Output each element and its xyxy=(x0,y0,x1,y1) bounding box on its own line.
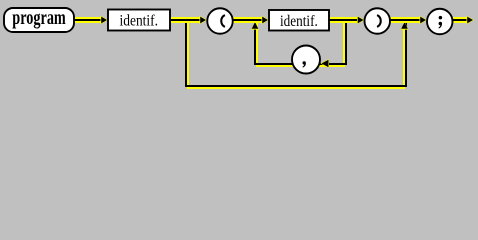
terminal circle: ) xyxy=(365,8,391,34)
wire: inner comma loop (black trace) xyxy=(255,22,346,64)
nonterminal box: identif (first) xyxy=(108,10,170,31)
terminal circle: ( xyxy=(207,8,233,34)
arrowhead: into ) circle xyxy=(357,16,365,24)
wire: main line ( to identif2 xyxy=(233,17,265,23)
terminal box: program (stadium) xyxy=(4,8,74,32)
label: ) xyxy=(377,15,381,27)
arrowhead: diagram exit xyxy=(467,16,475,24)
arrowhead: into identif2 box xyxy=(262,16,270,24)
wire: main line ) to ; xyxy=(390,17,423,23)
terminal circle: ; xyxy=(427,9,453,35)
wire: main line program to identif xyxy=(75,17,104,23)
wire: main line identif to ( xyxy=(171,17,203,23)
terminal circle: , (comma) xyxy=(292,46,320,74)
label: ; xyxy=(438,16,442,29)
nonterminal box: identif (second) xyxy=(269,10,329,31)
label: , xyxy=(302,61,306,67)
arrowhead: up from outer bypass into main line xyxy=(401,21,409,29)
wire: outer bypass loop (yellow inner trace) xyxy=(188,22,404,88)
arrowhead: left into comma circle xyxy=(321,59,330,68)
label: ( xyxy=(221,15,225,27)
svg-text:identif.: identif. xyxy=(120,13,159,30)
wire: outer bypass loop (black trace) xyxy=(186,22,406,86)
wire: main line exit after ; xyxy=(453,17,469,23)
svg-text:program: program xyxy=(12,7,66,29)
wire: inner comma loop (yellow inner trace) xyxy=(257,22,344,66)
arrowhead: into ( circle xyxy=(200,16,208,24)
svg-text:identif.: identif. xyxy=(280,13,318,30)
arrowhead: into identif box xyxy=(101,16,109,24)
wire: main line identif2 to ) xyxy=(329,17,360,23)
arrowhead: into ; circle xyxy=(420,16,428,24)
arrowhead: up from inner loop into main line xyxy=(251,21,259,29)
